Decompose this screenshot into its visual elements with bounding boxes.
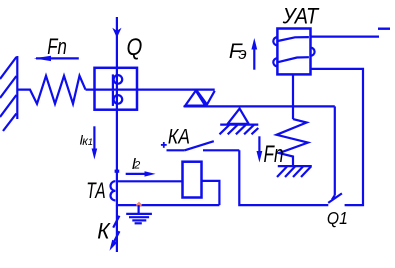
arrow Fn left [34, 56, 79, 61]
svg-text:2: 2 [133, 160, 140, 172]
svg-text:Q: Q [127, 34, 143, 61]
wire (coil to minus supply) [311, 35, 380, 37]
label i2 [132, 156, 141, 173]
label Fn (left force) [47, 34, 67, 59]
arrow i2 right [126, 171, 156, 176]
arrow iк1 down [92, 126, 98, 159]
svg-text:Fn: Fn [264, 141, 284, 168]
svg-text:УАТ: УАТ [282, 4, 320, 29]
minus terminal [378, 28, 390, 30]
svg-text:э: э [238, 44, 246, 63]
wall (fixed support, left) [0, 56, 17, 131]
arrow Q (down, on rod) [112, 28, 121, 38]
svg-text:Fn: Fn [47, 34, 67, 59]
svg-text:ТА: ТА [86, 178, 105, 203]
wire (lever, horizontal through box to pivot) [86, 88, 215, 90]
switch Q1 blade [328, 193, 342, 203]
svg-text:К: К [97, 219, 110, 244]
wire (KA contact down to bottom run) [239, 150, 328, 205]
label Fn (right force) [264, 141, 284, 168]
wire (TA secondary bottom) [117, 204, 219, 206]
wire (TA secondary top) [117, 180, 183, 182]
node (red junction dot) [136, 202, 143, 209]
contact circle top [113, 74, 122, 89]
electromagnet coil YAT [273, 29, 314, 75]
spring (left horizontal spring) [17, 76, 86, 104]
ground (hatched, under right spring) [277, 166, 312, 177]
fault lightning arrow K [110, 205, 120, 252]
arrow Fn down [257, 136, 263, 162]
current transformer TA winding arcs [111, 181, 116, 200]
breaker contact box Q [95, 68, 138, 110]
svg-text:1: 1 [88, 137, 93, 148]
pivot symbol (triangle + diagonal) [185, 91, 215, 106]
label TA [86, 178, 105, 203]
label YAT [282, 4, 320, 29]
label K (fault point) [97, 219, 110, 244]
svg-text:Q1: Q1 [327, 208, 348, 228]
junction dot on rod [115, 170, 120, 173]
wire (lever down to Q1) [332, 106, 335, 199]
plus mark [161, 142, 167, 148]
label iк1 [79, 133, 93, 148]
ground (earth symbol near TA) [126, 205, 152, 223]
svg-text:КА: КА [168, 125, 190, 148]
label Fэ [229, 40, 247, 63]
contact KA (normally open) [167, 141, 240, 150]
arrow Fэ up [251, 38, 257, 70]
spring (right vertical spring) [277, 119, 308, 166]
wire (relay coil right loop) [202, 181, 220, 205]
contact circle bottom [113, 91, 122, 106]
wire (lower lever line) [184, 105, 335, 107]
label Q [127, 34, 143, 61]
wire (coil bottom to spring) [292, 74, 294, 119]
relay coil KA [183, 162, 202, 198]
support with hatching (under lever) [220, 109, 259, 135]
label Q1 [327, 208, 348, 228]
wire (coil right side down to Q1) [311, 69, 364, 205]
wire (main vertical rod from top) [116, 17, 118, 206]
label KA [168, 125, 190, 148]
